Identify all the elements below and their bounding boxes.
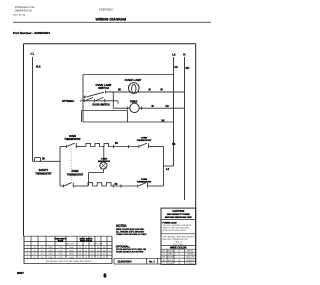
svg-text:Part Number - 316904004: Part Number - 316904004	[13, 31, 50, 35]
svg-text:BK: BK	[162, 120, 166, 122]
svg-text:DISCONNECT POWER: DISCONNECT POWER	[167, 214, 190, 216]
svg-text:ORANGE: ORANGE	[186, 259, 195, 262]
svg-text:WH: WH	[186, 68, 190, 70]
svg-text:YELLOW: YELLOW	[186, 257, 194, 259]
svg-text:FEB798CC: FEB798CC	[99, 8, 114, 12]
svg-text:RD: RD	[166, 106, 170, 108]
svg-text:DOOR SWITCH: DOOR SWITCH	[92, 104, 110, 107]
svg-text:THERMOSTAT: THERMOSTAT	[137, 181, 153, 184]
svg-text:5995441610: 5995441610	[15, 9, 32, 13]
svg-text:BL: BL	[163, 260, 165, 262]
svg-text:AMPS VOLTS: AMPS VOLTS	[80, 239, 93, 242]
svg-text:316904004: 316904004	[118, 260, 132, 264]
svg-text:RD: RD	[175, 67, 179, 69]
svg-text:RED: RED	[169, 254, 174, 256]
svg-text:BK: BK	[115, 184, 119, 186]
svg-text:BEFORE OPERATING UNIT.: BEFORE OPERATING UNIT.	[163, 238, 189, 241]
svg-text:THERMOSTAT: THERMOSTAT	[137, 139, 153, 142]
svg-text:240V 208V: 240V 208V	[94, 244, 104, 246]
svg-text:L2: L2	[166, 167, 170, 171]
svg-text:OVEN DOOR SHOWN CLOSED: OVEN DOOR SHOWN CLOSED	[116, 234, 147, 236]
svg-text:PURPLE: PURPLE	[186, 263, 194, 265]
svg-text:OPTIONAL: OPTIONAL	[62, 100, 75, 103]
svg-text:THERMOSTAT: THERMOSTAT	[64, 138, 81, 141]
svg-text:BK: BK	[172, 144, 176, 146]
svg-text:BROWN: BROWN	[167, 257, 175, 259]
svg-text:240V 208V: 240V 208V	[66, 244, 76, 246]
svg-text:BEFORE SERVICING UNIT: BEFORE SERVICING UNIT	[165, 217, 193, 219]
svg-text:BLACK: BLACK	[167, 250, 174, 253]
svg-text:06/07: 06/07	[17, 271, 24, 275]
svg-text:CAUTION: CAUTION	[172, 209, 184, 213]
svg-text:WIRE COLOR: WIRE COLOR	[170, 247, 186, 250]
svg-text:OVEN LAMP: OVEN LAMP	[125, 78, 142, 82]
svg-text:POWER LEAD: POWER LEAD	[163, 221, 178, 224]
svg-text:WIRING DIAGRAM: WIRING DIAGRAM	[96, 17, 127, 21]
svg-text:REPLACE ALL WIRE AND PANELS: REPLACE ALL WIRE AND PANELS	[163, 235, 196, 238]
svg-text:SWITCH: SWITCH	[98, 86, 109, 90]
svg-text:THERMOSTAT: THERMOSTAT	[67, 173, 84, 176]
svg-text:BK: BK	[115, 143, 119, 145]
svg-text:TIMER: TIMER	[130, 101, 138, 104]
svg-text:W: W	[178, 251, 180, 253]
svg-text:WHITE: WHITE	[187, 251, 194, 253]
svg-text:* SEE RATING PLATE FOR WATTS A: * SEE RATING PLATE FOR WATTS AND AMP RAT…	[45, 260, 92, 263]
svg-text:6: 6	[104, 274, 107, 280]
svg-text:BLUE: BLUE	[168, 260, 174, 262]
svg-text:BAKE: BAKE	[58, 239, 64, 242]
svg-text:THERMOSTAT: THERMOSTAT	[35, 172, 52, 175]
svg-text:(0607 Rev A): (0607 Rev A)	[13, 13, 26, 16]
svg-text:No. 2: No. 2	[149, 261, 155, 263]
svg-text:ATTACH GROUND FIRST.: ATTACH GROUND FIRST.	[163, 229, 187, 232]
svg-text:THE BLK GRN AND THE BARE: THE BLK GRN AND THE BARE	[163, 224, 192, 227]
svg-text:GRAY: GRAY	[168, 262, 174, 265]
svg-text:BK: BK	[42, 159, 46, 161]
svg-text:L1: L1	[31, 52, 35, 56]
svg-text:INDICATOR: INDICATOR	[98, 160, 110, 163]
svg-text:BK: BK	[118, 90, 122, 92]
svg-text:N: N	[183, 52, 185, 56]
svg-text:L2: L2	[172, 52, 176, 56]
svg-text:GREEN: GREEN	[187, 254, 194, 256]
svg-text:BLK: BLK	[36, 65, 41, 68]
svg-text:OPTIONAL:: OPTIONAL:	[116, 244, 130, 248]
svg-text:SOME MODELS AS SHOWN: SOME MODELS AS SHOWN	[116, 251, 144, 254]
